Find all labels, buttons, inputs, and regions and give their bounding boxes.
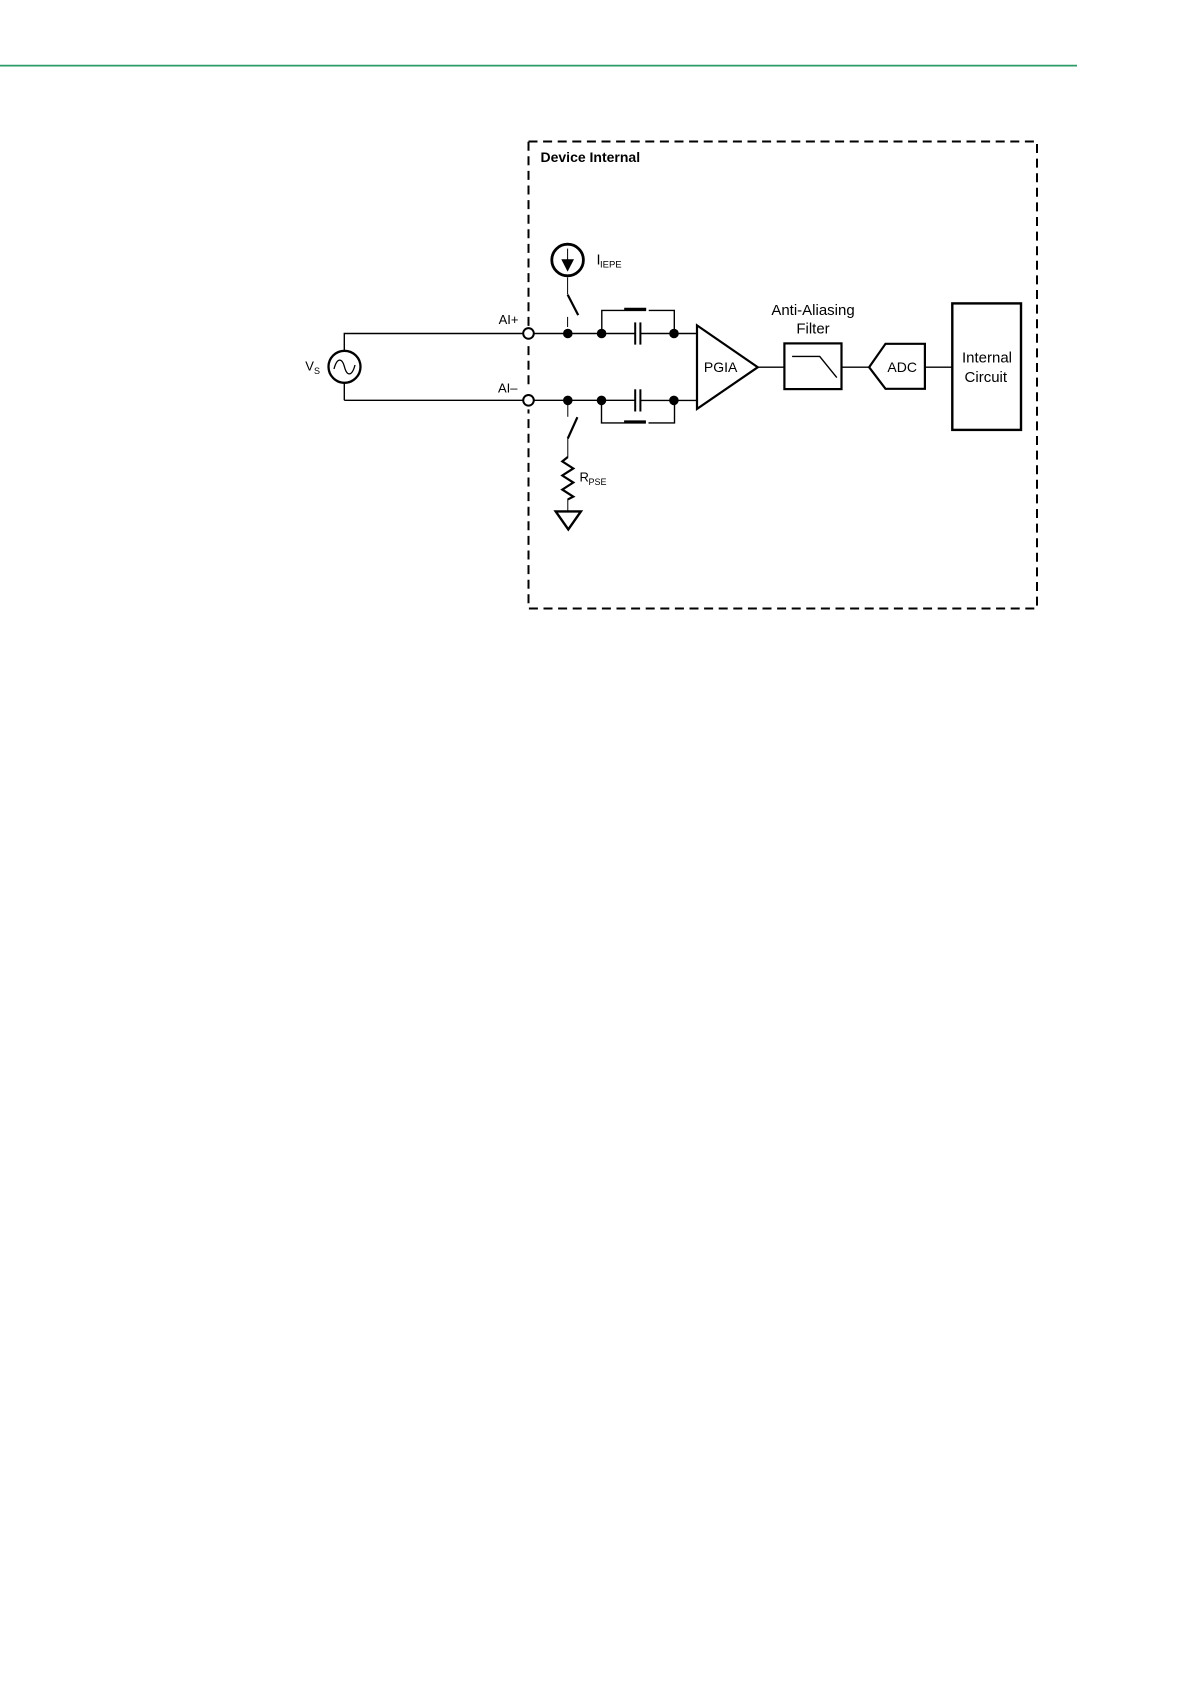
svg-text:PSE: PSE xyxy=(589,477,607,487)
svg-text:IEPE: IEPE xyxy=(600,260,622,271)
svg-text:Device Internal: Device Internal xyxy=(541,149,641,165)
svg-text:R: R xyxy=(580,470,589,485)
svg-text:Circuit: Circuit xyxy=(965,369,1008,386)
svg-text:Internal: Internal xyxy=(962,349,1012,366)
svg-text:Filter: Filter xyxy=(796,321,829,338)
svg-text:S: S xyxy=(314,366,320,376)
svg-text:Anti-Aliasing: Anti-Aliasing xyxy=(771,302,854,319)
svg-text:ADC: ADC xyxy=(887,359,917,375)
svg-text:AI–: AI– xyxy=(498,381,518,396)
svg-text:V: V xyxy=(305,359,314,374)
svg-text:PGIA: PGIA xyxy=(704,359,738,375)
svg-text:AI+: AI+ xyxy=(499,312,519,327)
